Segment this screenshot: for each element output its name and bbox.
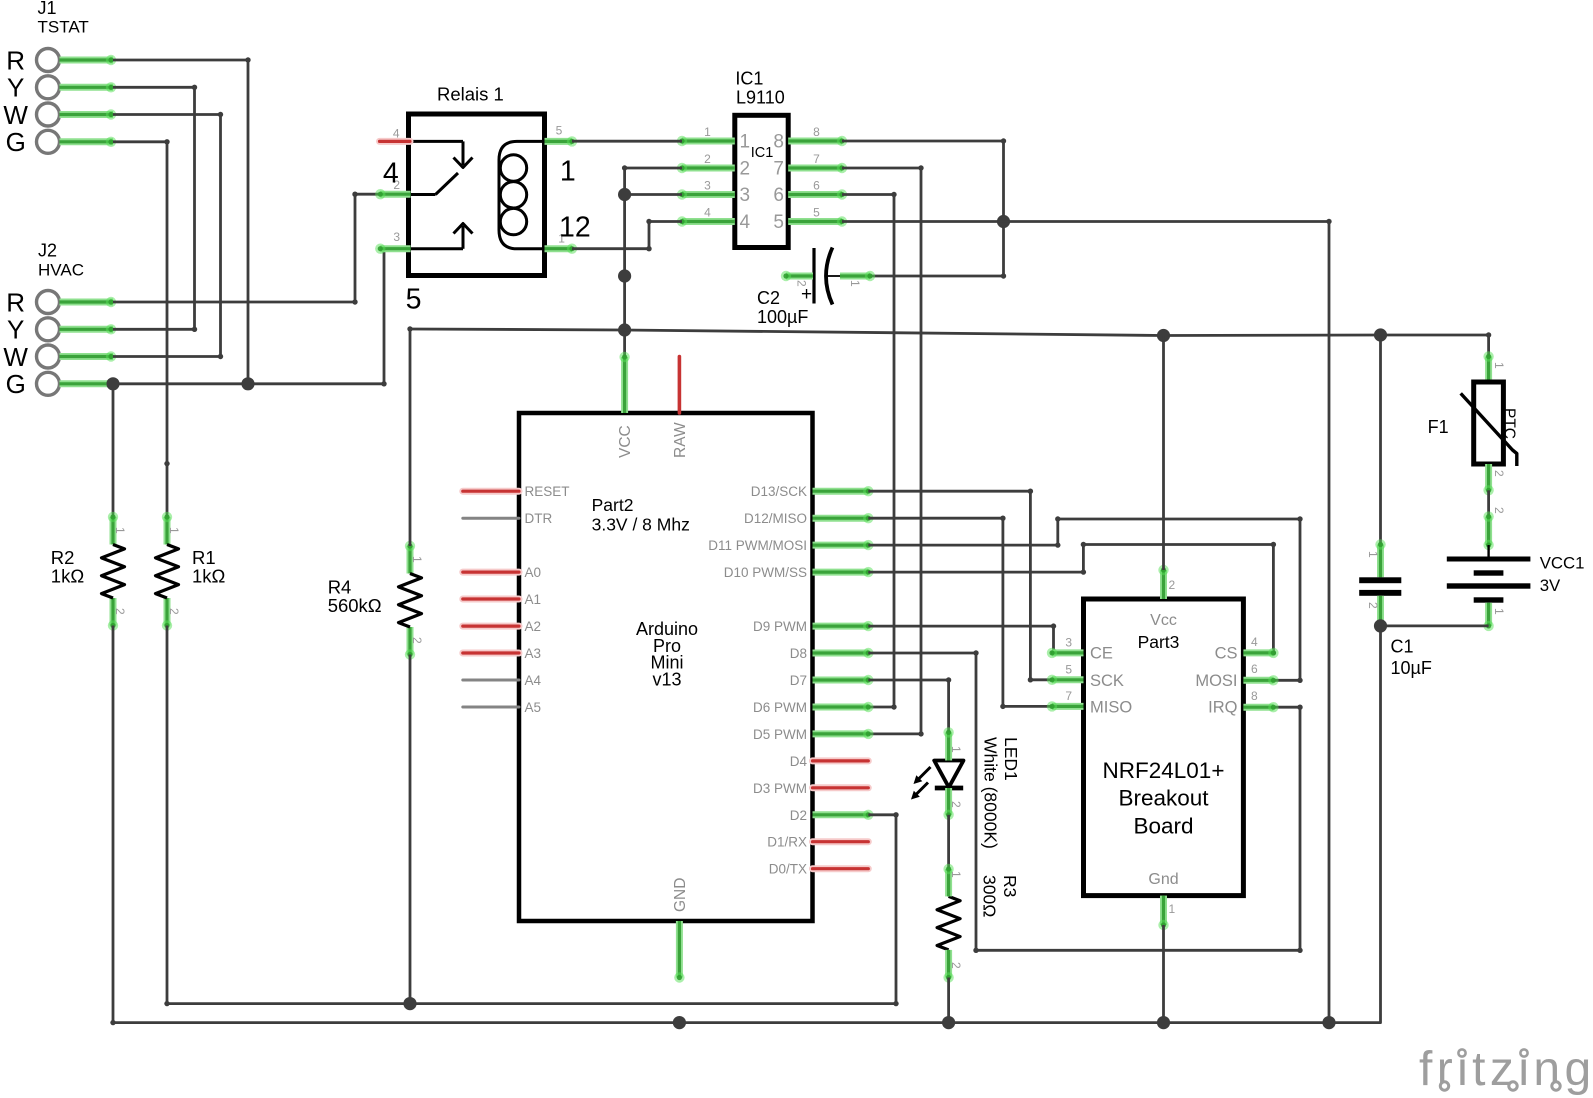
label R3 bbox=[980, 875, 1021, 917]
label Relais 1 bbox=[437, 84, 504, 105]
svg-text:2: 2 bbox=[1492, 507, 1506, 514]
wire R4 top to VCC rail bbox=[407, 326, 412, 546]
svg-text:2: 2 bbox=[795, 280, 809, 287]
svg-text:5: 5 bbox=[773, 212, 784, 233]
svg-text:Relais 1: Relais 1 bbox=[437, 84, 504, 105]
svg-text:VCC1: VCC1 bbox=[1540, 554, 1585, 573]
svg-text:2: 2 bbox=[1366, 602, 1380, 609]
svg-text:C2: C2 bbox=[757, 288, 780, 308]
svg-text:IRQ: IRQ bbox=[1208, 698, 1238, 716]
wire J1-R to node at J2-G bbox=[113, 57, 251, 384]
junction GND bus right rail bbox=[1322, 1016, 1335, 1029]
svg-text:SCK: SCK bbox=[1090, 672, 1124, 690]
wire D9 to NRF CE bbox=[868, 623, 1056, 655]
relay pin4 red stub bbox=[380, 126, 411, 141]
resistor R1 1k bbox=[156, 512, 182, 631]
Arduino D10 pin bbox=[813, 567, 874, 577]
svg-text:5: 5 bbox=[1065, 662, 1072, 676]
Arduino VCC label bbox=[617, 425, 634, 458]
junction C1/battery bbox=[1374, 619, 1387, 632]
NRF24 CS pin bbox=[1243, 635, 1278, 658]
relay pin1 bbox=[545, 232, 578, 254]
svg-text:3: 3 bbox=[704, 178, 711, 192]
wire VCC rail to C1 bbox=[1379, 335, 1382, 545]
junction VCC net rail bbox=[618, 323, 631, 336]
wire R1 to net at y1004 bbox=[166, 626, 169, 1004]
F1 pin1 bbox=[1483, 351, 1506, 382]
relay Relais1 body bbox=[409, 114, 545, 276]
junction J2-G / J1-R bbox=[241, 377, 254, 390]
Arduino RESET stub bbox=[463, 488, 519, 495]
svg-text:MISO: MISO bbox=[1090, 698, 1132, 716]
svg-text:RESET: RESET bbox=[525, 484, 570, 499]
svg-text:100µF: 100µF bbox=[757, 307, 808, 327]
wire D7 to LED1 bbox=[868, 677, 951, 732]
svg-text:Vcc: Vcc bbox=[1150, 612, 1177, 629]
junction GND bus NRF bbox=[1157, 1016, 1170, 1029]
IC1 left pins bbox=[677, 136, 735, 227]
Arduino A1 stub bbox=[463, 596, 519, 603]
svg-text:Y: Y bbox=[7, 73, 24, 103]
wire J1-W to J2-W bbox=[113, 112, 223, 359]
wire R4 bottom to net y1004 bbox=[409, 655, 412, 1004]
VCC rail end bend bbox=[1486, 332, 1491, 337]
svg-text:LED1: LED1 bbox=[1001, 737, 1021, 781]
resistor R3 300 bbox=[937, 864, 963, 983]
wire IC1 pin2 to Arduino VCC bbox=[622, 165, 682, 357]
NRF24 SCK pin bbox=[1047, 662, 1084, 685]
svg-text:GND: GND bbox=[672, 878, 689, 912]
label VCC1 3V bbox=[1540, 554, 1585, 596]
LED1 emission arrows bbox=[911, 767, 931, 800]
svg-text:3: 3 bbox=[740, 185, 751, 206]
connector J2 pins bbox=[60, 297, 117, 389]
Arduino D6 pin bbox=[813, 702, 874, 712]
wire LED1 to R3 bbox=[947, 815, 950, 869]
NRF24 Gnd pin bbox=[1158, 896, 1175, 931]
svg-text:D11 PWM/MOSI: D11 PWM/MOSI bbox=[708, 538, 807, 553]
svg-text:4: 4 bbox=[704, 205, 711, 219]
svg-text:R: R bbox=[6, 45, 25, 75]
capacitor C2 polarized bbox=[801, 248, 841, 306]
svg-text:D3 PWM: D3 PWM bbox=[753, 781, 807, 796]
wire J2-R to relay pin2 bbox=[113, 192, 380, 305]
resistor R4 560k bbox=[399, 541, 425, 660]
svg-text:D10 PWM/SS: D10 PWM/SS bbox=[724, 565, 807, 580]
svg-text:8: 8 bbox=[773, 132, 784, 153]
fritzing watermark bbox=[1419, 1043, 1593, 1096]
junction VCC net C2 bbox=[618, 269, 631, 282]
wire IC1 pin5 to ground bus right bbox=[842, 219, 1332, 1023]
svg-text:CS: CS bbox=[1215, 644, 1238, 662]
Arduino A4 stub bbox=[463, 679, 519, 682]
svg-text:J2: J2 bbox=[38, 241, 57, 261]
svg-text:C1: C1 bbox=[1391, 637, 1414, 657]
connector J1 pins bbox=[60, 55, 117, 147]
capacitor C1 symbol bbox=[1359, 577, 1401, 596]
junction VCC rail NRF bbox=[1157, 329, 1170, 342]
LED1 pin1 bbox=[943, 727, 963, 760]
svg-text:3V: 3V bbox=[1540, 576, 1561, 595]
svg-text:A2: A2 bbox=[525, 619, 542, 634]
svg-text:J1: J1 bbox=[38, 0, 57, 18]
svg-text:6: 6 bbox=[813, 178, 820, 192]
wire VCC rail to F1 bbox=[1487, 335, 1490, 357]
label LED1 bbox=[981, 737, 1022, 849]
svg-text:2: 2 bbox=[1169, 578, 1176, 592]
C1 pin2 bbox=[1366, 596, 1386, 631]
relay coil bbox=[499, 141, 545, 248]
svg-text:Part2: Part2 bbox=[592, 495, 634, 515]
svg-text:1: 1 bbox=[167, 527, 181, 534]
svg-text:DTR: DTR bbox=[525, 511, 553, 526]
svg-text:W: W bbox=[3, 342, 28, 372]
Arduino DTR stub bbox=[463, 517, 519, 520]
svg-text:2: 2 bbox=[949, 801, 963, 808]
NRF24 MOSI pin bbox=[1243, 662, 1278, 686]
wire IC1 pin7 to D5 bbox=[842, 165, 924, 736]
relay pin5 bbox=[545, 123, 578, 146]
wire IC1 pin3 to VCC net bbox=[625, 193, 682, 196]
NRF24 Part3 body bbox=[1084, 599, 1244, 896]
IC U1 L9110 title bbox=[735, 68, 784, 107]
svg-text:2: 2 bbox=[704, 152, 711, 166]
junction IC1 pin5/pin8 bbox=[997, 215, 1010, 228]
svg-text:1: 1 bbox=[560, 155, 576, 187]
svg-text:3.3V / 8 Mhz: 3.3V / 8 Mhz bbox=[592, 515, 690, 535]
svg-text:MOSI: MOSI bbox=[1195, 672, 1237, 690]
svg-text:W: W bbox=[3, 100, 28, 130]
IC1 right pins bbox=[788, 136, 847, 227]
label PTC bbox=[1501, 408, 1518, 439]
svg-text:R: R bbox=[6, 287, 25, 317]
wire R2 to ground bus bbox=[112, 626, 115, 1023]
svg-text:1: 1 bbox=[704, 125, 711, 139]
svg-text:560kΩ: 560kΩ bbox=[328, 595, 382, 616]
Arduino D1/RX stub bbox=[813, 838, 869, 845]
svg-text:1: 1 bbox=[949, 871, 963, 878]
wire J1-Y to J2-Y bbox=[113, 85, 197, 332]
Arduino A5 stub bbox=[463, 706, 519, 709]
svg-text:6: 6 bbox=[773, 185, 784, 206]
svg-text:4: 4 bbox=[740, 212, 751, 233]
svg-text:White (8000K): White (8000K) bbox=[981, 737, 1001, 849]
junction GND bus Arduino bbox=[673, 1016, 686, 1029]
junction VCC net pin3 bbox=[618, 188, 631, 201]
wire R3 to ground bus bbox=[947, 978, 950, 1023]
wire relay pin1 to IC1 pin4 bbox=[572, 219, 682, 252]
wire IC1 pin6 to D6 bbox=[842, 192, 897, 710]
C2 pin1 bbox=[840, 271, 875, 287]
Arduino D2 pin bbox=[813, 810, 874, 820]
junction R4 net bbox=[403, 997, 416, 1010]
svg-text:RAW: RAW bbox=[672, 422, 689, 458]
svg-text:D1/RX: D1/RX bbox=[767, 835, 807, 850]
battery VCC1 3V symbol bbox=[1447, 545, 1531, 603]
wire F1 to battery bbox=[1487, 490, 1490, 516]
IC1 body bbox=[735, 115, 788, 247]
relay pin3 bbox=[375, 230, 411, 254]
svg-text:IC1: IC1 bbox=[735, 68, 763, 88]
svg-text:D2: D2 bbox=[790, 808, 807, 823]
Arduino D4 stub bbox=[813, 757, 869, 764]
svg-text:PTC: PTC bbox=[1501, 408, 1518, 439]
NRF24 Vcc pin bbox=[1158, 565, 1175, 599]
relay big pin labels bbox=[383, 155, 591, 315]
NRF24 labels bbox=[1090, 612, 1238, 888]
svg-text:1kΩ: 1kΩ bbox=[51, 566, 85, 587]
wire relay pin5 to IC1 pin1 bbox=[572, 140, 682, 143]
svg-text:Breakout: Breakout bbox=[1118, 786, 1209, 811]
svg-text:D8: D8 bbox=[790, 646, 807, 661]
svg-text:1kΩ: 1kΩ bbox=[192, 566, 226, 587]
Arduino D11 pin bbox=[813, 540, 874, 550]
svg-text:1: 1 bbox=[740, 132, 751, 153]
svg-text:R3: R3 bbox=[1000, 875, 1020, 897]
svg-text:G: G bbox=[6, 369, 26, 399]
svg-text:1: 1 bbox=[1492, 608, 1506, 615]
C1 pin1 bbox=[1366, 539, 1386, 577]
NRF24 CE pin bbox=[1047, 636, 1084, 658]
LED1 pin2 bbox=[943, 788, 963, 820]
svg-text:CE: CE bbox=[1090, 644, 1113, 662]
wire D13 to NRF SCK bbox=[868, 489, 1052, 683]
svg-text:TSTAT: TSTAT bbox=[38, 18, 89, 37]
wire D12 to NRF MISO bbox=[868, 516, 1052, 710]
connector J1 TSTAT bbox=[3, 0, 88, 157]
Arduino A3 stub bbox=[463, 650, 519, 657]
relay switch contacts bbox=[409, 141, 473, 248]
svg-text:1: 1 bbox=[1169, 902, 1176, 916]
Arduino RAW label bbox=[672, 422, 689, 458]
label R4 value bbox=[328, 576, 382, 616]
ground bus wire bbox=[110, 1020, 1329, 1025]
svg-text:A4: A4 bbox=[525, 673, 542, 688]
Arduino GND label bbox=[672, 878, 689, 912]
Arduino D8 pin bbox=[813, 648, 874, 658]
svg-text:D12/MISO: D12/MISO bbox=[744, 511, 807, 526]
svg-text:2: 2 bbox=[949, 962, 963, 969]
svg-text:7: 7 bbox=[1065, 689, 1072, 703]
svg-text:8: 8 bbox=[813, 125, 820, 139]
svg-text:Y: Y bbox=[7, 315, 24, 345]
C2 pin2 bbox=[781, 271, 813, 287]
svg-text:1: 1 bbox=[113, 527, 127, 534]
Arduino D7 pin bbox=[813, 675, 874, 685]
svg-text:A3: A3 bbox=[525, 646, 542, 661]
svg-text:12: 12 bbox=[559, 212, 591, 244]
label Arduino Pro Mini v13 bbox=[636, 619, 698, 689]
Arduino D3 stub bbox=[813, 784, 869, 791]
svg-text:5: 5 bbox=[406, 283, 422, 315]
svg-text:2: 2 bbox=[113, 608, 127, 615]
svg-text:D4: D4 bbox=[790, 754, 808, 769]
wire NRF Gnd to ground bus bbox=[1162, 925, 1165, 1023]
battery pin2 bbox=[1483, 507, 1506, 550]
resistor R2 1k bbox=[102, 512, 128, 631]
Arduino GND pin bbox=[674, 921, 684, 983]
Arduino A2 stub bbox=[463, 623, 519, 630]
svg-text:D6 PWM: D6 PWM bbox=[753, 700, 807, 715]
svg-text:D0/TX: D0/TX bbox=[769, 862, 807, 877]
svg-text:F1: F1 bbox=[1428, 417, 1449, 437]
svg-text:3: 3 bbox=[393, 230, 400, 244]
svg-text:2: 2 bbox=[1492, 470, 1506, 477]
svg-text:10µF: 10µF bbox=[1391, 658, 1432, 678]
label C2 value bbox=[757, 288, 808, 327]
NRF24 IRQ pin bbox=[1243, 689, 1278, 712]
Arduino Part2 body bbox=[519, 413, 813, 921]
svg-text:7: 7 bbox=[813, 152, 820, 166]
label R2 value bbox=[51, 547, 85, 587]
wire D11 to NRF MOSI bbox=[868, 516, 1302, 683]
label C1 value bbox=[1391, 637, 1432, 679]
Arduino RAW stub bbox=[678, 357, 682, 414]
svg-text:1: 1 bbox=[1366, 551, 1380, 558]
IC1 inside pin numbers bbox=[740, 132, 785, 234]
svg-text:1: 1 bbox=[949, 746, 963, 753]
wire J2-G to relay pin3 bbox=[113, 249, 387, 387]
svg-text:G: G bbox=[6, 127, 26, 157]
svg-text:Part3: Part3 bbox=[1138, 632, 1180, 652]
relay pin2 bbox=[375, 178, 411, 199]
svg-text:A1: A1 bbox=[525, 592, 542, 607]
Arduino D13/SCK pin bbox=[813, 486, 874, 496]
svg-text:A0: A0 bbox=[525, 565, 542, 580]
svg-text:2: 2 bbox=[740, 159, 751, 180]
svg-text:NRF24L01+: NRF24L01+ bbox=[1103, 758, 1225, 783]
svg-text:5: 5 bbox=[556, 123, 563, 137]
junction GND bus R3 bbox=[942, 1016, 955, 1029]
label R1 value bbox=[192, 547, 226, 587]
IC1 outside pin numbers bbox=[704, 125, 820, 220]
Arduino D9 pin bbox=[813, 621, 874, 631]
junction J2-G bbox=[106, 377, 119, 390]
svg-text:HVAC: HVAC bbox=[38, 260, 84, 279]
label Part2 bbox=[592, 495, 690, 535]
Arduino D5 pin bbox=[813, 729, 874, 739]
svg-text:6: 6 bbox=[1251, 662, 1258, 676]
svg-text:300Ω: 300Ω bbox=[980, 875, 1000, 917]
svg-text:4: 4 bbox=[383, 158, 399, 190]
svg-text:v13: v13 bbox=[652, 669, 681, 689]
Arduino A0 stub bbox=[463, 569, 519, 576]
LED1 diode symbol bbox=[934, 761, 963, 789]
F1 pin2 bbox=[1483, 464, 1506, 495]
connector J2 HVAC bbox=[3, 241, 84, 399]
Arduino D0/TX stub bbox=[813, 865, 869, 872]
battery pin1 bbox=[1483, 603, 1506, 631]
svg-text:3: 3 bbox=[1065, 636, 1072, 650]
svg-text:Board: Board bbox=[1133, 813, 1193, 838]
svg-text:7: 7 bbox=[773, 159, 784, 180]
svg-text:D5 PWM: D5 PWM bbox=[753, 727, 807, 742]
svg-text:1: 1 bbox=[1492, 362, 1506, 369]
wire battery to C1 node bbox=[1381, 625, 1489, 628]
wire D2 to R1/R4 net bbox=[868, 812, 898, 1004]
svg-text:8: 8 bbox=[1251, 689, 1258, 703]
wire VCC rail bbox=[410, 329, 1489, 336]
label F1 bbox=[1428, 417, 1449, 437]
svg-text:IC1: IC1 bbox=[751, 145, 774, 161]
wire J2-G down to R2 bbox=[112, 384, 115, 517]
svg-text:1: 1 bbox=[410, 556, 424, 563]
svg-text:Gnd: Gnd bbox=[1148, 871, 1178, 888]
wire D10 to NRF CS bbox=[868, 542, 1276, 656]
svg-text:D13/SCK: D13/SCK bbox=[751, 484, 807, 499]
wire J1-G to R1 bbox=[113, 139, 170, 517]
svg-text:D7: D7 bbox=[790, 673, 807, 688]
svg-text:2: 2 bbox=[410, 637, 424, 644]
Arduino pin name labels bbox=[525, 484, 808, 877]
svg-text:1: 1 bbox=[848, 280, 862, 287]
svg-text:D9 PWM: D9 PWM bbox=[753, 619, 807, 634]
svg-text:4: 4 bbox=[393, 126, 400, 140]
svg-text:A5: A5 bbox=[525, 700, 542, 715]
svg-text:2: 2 bbox=[167, 608, 181, 615]
Arduino D12/MISO pin bbox=[813, 513, 874, 523]
wire net R1/R4 bbox=[164, 1001, 898, 1006]
svg-text:5: 5 bbox=[813, 205, 820, 219]
svg-text:L9110: L9110 bbox=[736, 87, 785, 107]
svg-text:VCC: VCC bbox=[617, 425, 634, 458]
Arduino VCC pin bbox=[619, 352, 629, 413]
wire D8 to NRF IRQ bbox=[868, 650, 1302, 953]
wire C1 node down to ground bus bbox=[1329, 626, 1381, 1023]
fuse F1 PTC symbol bbox=[1461, 382, 1517, 466]
wire NRF Vcc to VCC rail bbox=[1162, 336, 1165, 571]
junction VCC rail C1/F1 bbox=[1374, 328, 1387, 341]
svg-text:+: + bbox=[801, 284, 812, 305]
NRF24 MISO pin bbox=[1047, 689, 1084, 712]
svg-text:4: 4 bbox=[1251, 635, 1258, 649]
wire IC1 pin8 to C2 positive bbox=[842, 138, 1006, 278]
